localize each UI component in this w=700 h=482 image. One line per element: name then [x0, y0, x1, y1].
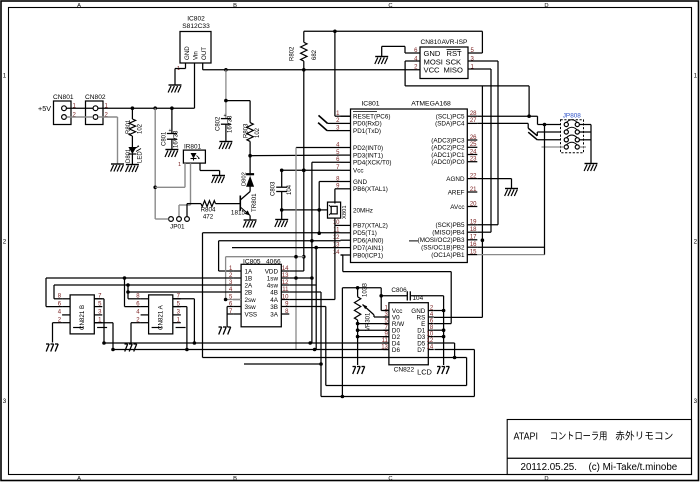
IC801 pin 9 PB6(XTAL1): [341, 188, 351, 190]
IC801 pin 17 (MOSI/OC2)PB3: [467, 239, 477, 241]
IC805 pin 1 1A: [233, 270, 241, 272]
connector CN822 LCD: [389, 303, 428, 365]
svg-text:CN821 B: CN821 B: [79, 305, 86, 330]
wire IR801 Vcc from +5V gray vertical: [154, 108, 156, 219]
svg-text:C: C: [388, 476, 392, 482]
ground for CN822 right: [437, 367, 449, 375]
overline dash before (MOSI text: [409, 240, 418, 242]
IC801 pin 16 (SS/OC1B)PB2: [467, 246, 477, 248]
CN821A pin 5: [173, 306, 181, 308]
svg-text:コントローラ用: コントローラ用: [550, 431, 608, 443]
svg-text:13: 13: [282, 273, 289, 279]
svg-text:4B: 4B: [270, 289, 278, 296]
IC801 pin 27 (SDA)PC4: [467, 122, 477, 124]
IC805 pin 6 3sw: [233, 306, 241, 308]
ground for AGND: [505, 189, 518, 197]
wire D7 from outer loop to CN822 pin14: [434, 349, 474, 351]
wire MOSI routing: [405, 85, 529, 87]
IC805 pin 2 1B: [233, 277, 241, 279]
svg-text:A: A: [77, 476, 81, 482]
svg-text:24: 24: [470, 149, 477, 155]
IC805 pin 7 VSS: [233, 313, 241, 315]
wire rail2 corner to CN821B pin8: [53, 285, 55, 299]
svg-text:10: 10: [282, 294, 289, 300]
svg-text:4sw: 4sw: [267, 282, 279, 289]
wire R/W D0 D2 grounding rows: [358, 323, 389, 325]
wire IC802 GND to ground: [185, 63, 187, 69]
CN822 pin 13 D6: [383, 349, 389, 351]
IC801 pin 18 (MISO)PB4: [467, 231, 477, 233]
wire PB2 pin16 right: [477, 246, 544, 248]
CN821B pin 6: [62, 306, 70, 308]
svg-text:PD1(TxD): PD1(TxD): [353, 128, 381, 135]
svg-text:(ADC2)PC2: (ADC2)PC2: [431, 145, 465, 152]
svg-text:IC802: IC802: [187, 16, 205, 23]
wire C803 bottom to GND net: [282, 209, 320, 211]
svg-text:12: 12: [427, 338, 434, 344]
wire RS line from MOSI vertical to CN822 pin4: [434, 316, 482, 318]
wire IC805 pin12 drop to D6: [289, 284, 316, 286]
svg-text:VR301: VR301: [366, 312, 372, 331]
CN822 pin 6 E: [428, 323, 434, 325]
svg-text:(OC1A)PB1: (OC1A)PB1: [431, 252, 465, 259]
IC805 pin 9 3B: [281, 306, 289, 308]
wire D5 pin12 to inner loop: [434, 342, 455, 344]
IC801 pin 7 Vcc: [341, 169, 351, 171]
svg-text:PD6(AIN0): PD6(AIN0): [353, 238, 383, 245]
wire CN822 GND column: [443, 311, 445, 366]
wire IC805 pin1 loop to AIN0 net: [219, 270, 234, 272]
capacitor C803 104: [276, 186, 287, 188]
IC801 pin 13 PD7(AIN1): [341, 247, 351, 249]
svg-text:B: B: [233, 3, 237, 9]
LED D801: [131, 136, 133, 147]
svg-text:3: 3: [694, 398, 698, 405]
capacitor C802 16V33: [221, 118, 231, 120]
svg-text:C801: C801: [162, 131, 168, 146]
CN822 pin 10 D3: [428, 336, 434, 338]
svg-text:RESET(PC6): RESET(PC6): [353, 114, 390, 121]
wire IC805 pin13 to PD4 channel: [289, 277, 312, 279]
wire TR801 emitter to ground: [249, 216, 251, 221]
svg-text:12: 12: [333, 235, 340, 241]
wire CN810 GND pin6 to ground: [405, 52, 420, 54]
svg-text:Vin: Vin: [193, 51, 200, 60]
svg-text:20MHz: 20MHz: [353, 208, 373, 215]
CN821A pin 2: [141, 322, 149, 324]
svg-text:22: 22: [470, 173, 477, 179]
svg-text:OUT: OUT: [201, 47, 208, 60]
svg-text:C806: C806: [391, 287, 407, 294]
wire inner loop right/bottom: [466, 358, 468, 386]
connector CN821 A: [149, 295, 173, 334]
svg-text:C802: C802: [216, 116, 222, 131]
svg-text:20: 20: [470, 201, 477, 207]
svg-text:2: 2: [3, 239, 7, 246]
svg-text:10: 10: [427, 331, 434, 337]
IC801 pin 6 PD4(XCK/T0): [341, 161, 351, 163]
wire PD2 INT0 to channel: [296, 147, 341, 149]
IC805 pin 3 2A: [233, 284, 241, 286]
wire JP01 left pin to +5V: [155, 218, 168, 220]
wire CN810 MISO pin1 down to PB4: [468, 68, 491, 70]
svg-text:15: 15: [470, 249, 477, 255]
svg-text:27: 27: [470, 118, 477, 124]
svg-text:D: D: [544, 476, 548, 482]
svg-text:(ADC1)PC1: (ADC1)PC1: [431, 152, 465, 159]
wire PD5 T1 left: [203, 232, 341, 234]
svg-text:C803: C803: [271, 181, 277, 196]
wire D6 line to CN822 pin13: [113, 349, 389, 351]
wire Vcc riser to CN822 pin1: [380, 288, 382, 311]
svg-text:3B: 3B: [270, 304, 278, 311]
svg-text:AREF: AREF: [448, 189, 465, 196]
CN821B pin 7: [94, 298, 102, 300]
svg-text:+5V: +5V: [38, 104, 51, 113]
CN821A pin 1: [173, 322, 181, 324]
wire IR801 OUT down to JP01: [190, 163, 192, 205]
wire R804 to TR801 base: [216, 203, 241, 205]
IC801 pin 26 (ADC3)PC3: [467, 139, 477, 141]
wire vertical from JP808 row1 down to PB1/PB2: [544, 125, 546, 255]
IC801 pin 25 (ADC2)PC2: [467, 146, 477, 148]
JP808 jumper row 3: [564, 138, 568, 142]
svg-text:3: 3: [3, 398, 7, 405]
wire y364 link: [244, 363, 321, 365]
wire E line down to CN822 pin6: [434, 323, 451, 325]
svg-text:PD5(T1): PD5(T1): [353, 230, 377, 237]
wire CN821B pin7 to D4 line: [94, 298, 104, 300]
svg-text:D801: D801: [126, 148, 132, 163]
IC801 pin 10 PB7(XTAL2): [341, 224, 351, 226]
IC801 pin 8 GND: [341, 181, 351, 183]
IC805 pin 11 4B: [281, 291, 289, 293]
IC801 pin 12 PD6(AIN0): [341, 239, 351, 241]
IC805 pin 4 2B: [233, 291, 241, 293]
wire IC805 pin6 3sw: [227, 306, 233, 308]
svg-text:1: 1: [694, 73, 698, 80]
IC801 pin 3 PD1(TxD): [341, 130, 351, 132]
wire 3.3V branch down to C802: [225, 70, 227, 119]
svg-text:104: 104: [287, 184, 293, 195]
CN821B pin 5: [94, 306, 102, 308]
svg-text:1A: 1A: [245, 268, 254, 275]
svg-text:TR801: TR801: [251, 193, 258, 212]
svg-text:X801: X801: [342, 205, 348, 219]
IC801 pin 15 (OC1A)PB1: [467, 254, 477, 256]
svg-text:CN821 A: CN821 A: [158, 304, 165, 330]
svg-text:PD4(XCK/T0): PD4(XCK/T0): [353, 160, 392, 167]
wire CN821A pin2 to ground: [131, 322, 141, 324]
CN821A pin 4: [141, 314, 149, 316]
svg-text:(SCL)PC5: (SCL)PC5: [436, 114, 465, 121]
svg-text:B: B: [233, 476, 237, 482]
wire PD0 pigtail: [328, 122, 341, 124]
wire Vcc rail drop left: [341, 288, 343, 397]
ground for C801: [165, 150, 178, 158]
svg-text:1815: 1815: [231, 210, 246, 217]
svg-text:3sw: 3sw: [245, 304, 257, 311]
capacitor C801 16V33: [167, 133, 177, 135]
wire IC805 pin9 drop to inner loop: [289, 306, 326, 308]
svg-text:21: 21: [470, 187, 477, 193]
CN822 pin 11 D4: [383, 342, 389, 344]
svg-text:JP01: JP01: [170, 224, 185, 231]
svg-text:PD2(INT0): PD2(INT0): [353, 145, 383, 152]
svg-text:LCD: LCD: [417, 368, 432, 377]
svg-text:(c) Mi-Take/t.minobe: (c) Mi-Take/t.minobe: [589, 462, 678, 473]
svg-text:PD3(INT1): PD3(INT1): [353, 152, 383, 159]
svg-text:12: 12: [282, 280, 289, 286]
svg-text:20112.05.25.: 20112.05.25.: [521, 462, 577, 473]
IC805 pin 8 3A: [281, 313, 289, 315]
svg-text:LED: LED: [138, 151, 144, 163]
svg-text:CN802: CN802: [85, 94, 106, 101]
svg-text:1B: 1B: [245, 275, 253, 282]
wire outer loop bottom: [321, 396, 474, 398]
svg-text:19: 19: [470, 220, 477, 226]
wire VR301 bottom to ground chain: [357, 320, 359, 365]
svg-text:682: 682: [312, 49, 318, 60]
IC805 pin 13 1sw: [281, 277, 289, 279]
resistor R803 102: [247, 123, 253, 142]
CN821B pin1/2 NC bars: [73, 327, 83, 329]
svg-text:JP808: JP808: [563, 113, 582, 120]
wire IC805 pin10 to XTAL2 channel: [289, 299, 335, 301]
wire VDD feed from Vcc vertical: [303, 70, 305, 271]
svg-text:(SCK)PB5: (SCK)PB5: [435, 222, 465, 229]
CN821B pin 4: [62, 314, 70, 316]
svg-text:14: 14: [282, 266, 289, 272]
JP808 jumper row 1: [564, 122, 568, 126]
CN821A pin 6: [141, 306, 149, 308]
wire Vcc line to C803 top: [282, 169, 341, 171]
CN821B pin 2: [62, 322, 70, 324]
IC801 pin 5 PD3(INT1): [341, 154, 351, 156]
svg-text:102: 102: [138, 123, 144, 134]
CN821A pin 7: [173, 298, 181, 300]
wire IC802 Vin down to +5V rail: [194, 63, 196, 108]
svg-text:+: +: [169, 128, 172, 134]
CN821B pin 1: [94, 322, 102, 324]
svg-text:2A: 2A: [245, 282, 254, 289]
IC805 pin 10 4A: [281, 299, 289, 301]
wire branch to R803: [226, 100, 250, 102]
wire IC805 pin3 to rail2: [54, 284, 233, 286]
CN821B pin 8: [62, 298, 70, 300]
wire CN802 pin2 down to ground: [98, 116, 118, 118]
wire RST rail: [304, 30, 483, 32]
wire IC805 VSS to ground: [227, 313, 233, 315]
CN822 pin 5 R/W: [383, 323, 389, 325]
JP808 jumper row 4: [564, 145, 568, 149]
jumper JP01: [169, 217, 174, 222]
ground for CN821A: [125, 344, 137, 352]
resistor R802 682: [303, 31, 305, 42]
ground for CN821B: [46, 344, 58, 352]
VR301 wiper arrow: [363, 305, 375, 315]
svg-text:S812C33: S812C33: [182, 23, 210, 30]
IC801 pin 28 (SCL)PC5: [467, 115, 477, 117]
wire CN821A pin5 to D6 line: [173, 306, 187, 308]
ground for CN810: [375, 57, 388, 65]
svg-text:26: 26: [470, 135, 477, 141]
CN821A pin1/2 NC bars: [152, 327, 162, 329]
svg-text:472: 472: [203, 214, 214, 221]
svg-text:23: 23: [470, 157, 477, 163]
svg-text:AGND: AGND: [446, 176, 465, 183]
svg-text:16V33: 16V33: [228, 115, 234, 133]
svg-text:(MISO)PB4: (MISO)PB4: [432, 230, 465, 237]
svg-text:14: 14: [427, 344, 434, 350]
resonator X801 20MHz: [328, 202, 341, 218]
ground for VR301 chain: [353, 367, 365, 375]
svg-text:PD7(AIN1): PD7(AIN1): [353, 245, 383, 252]
svg-text:A: A: [77, 3, 81, 9]
wire XTAL1 pin9: [335, 188, 341, 190]
potentiometer VR301 103B: [357, 288, 359, 297]
title block: [507, 420, 691, 475]
wire JP808 rows right common: [579, 124, 591, 126]
svg-text:AVR-ISP: AVR-ISP: [442, 39, 468, 46]
svg-text:D802: D802: [242, 172, 248, 186]
resistor R804 472: [201, 201, 216, 207]
svg-text:VCC: VCC: [424, 66, 441, 75]
IC801 pin 2 PD0(RxD): [341, 122, 351, 124]
wire XTAL2 pin10: [335, 224, 341, 226]
svg-text:R803: R803: [244, 123, 250, 138]
svg-text:GND: GND: [184, 46, 191, 60]
ground for C802: [219, 142, 232, 150]
svg-text:2B: 2B: [245, 289, 253, 296]
wire T1 net drop and inner loop top: [202, 233, 204, 358]
wire CN822 pin2 to GND column: [434, 310, 444, 312]
wire 3.3V rail: [203, 69, 420, 71]
JP808 jumper row 2: [564, 130, 568, 134]
ground for C803: [275, 220, 288, 228]
svg-text:C: C: [388, 3, 392, 9]
CN821A pin 3: [173, 314, 181, 316]
svg-text:PB0(ICP1): PB0(ICP1): [353, 252, 383, 259]
wire RESET vertical to ATMEGA pin1: [334, 31, 336, 116]
svg-text:IC801: IC801: [361, 101, 379, 108]
CN822 pin 12 D5: [428, 342, 434, 344]
svg-text:AVcc: AVcc: [450, 204, 464, 211]
svg-text:赤外リモコン: 赤外リモコン: [615, 431, 673, 443]
wire LCD Vcc rail: [342, 287, 381, 289]
svg-text:GND: GND: [353, 179, 367, 186]
wire collector node to PD3(INT1): [250, 154, 340, 157]
svg-text:CN822: CN822: [394, 367, 415, 374]
svg-text:3A: 3A: [270, 311, 279, 318]
svg-text:PB7(XTAL2): PB7(XTAL2): [353, 223, 388, 230]
svg-text:ATMEGA168: ATMEGA168: [411, 101, 451, 108]
svg-text:28: 28: [470, 111, 477, 117]
wire CN821A pin7 to D4 line: [173, 298, 195, 300]
svg-text:+: +: [224, 113, 227, 119]
IC801 pin 14 PB0(ICP1): [341, 254, 351, 256]
wire IC805 pin11 drop to outer loop: [289, 291, 321, 293]
svg-text:1sw: 1sw: [267, 275, 279, 282]
svg-text:D7: D7: [417, 347, 426, 354]
svg-text:25: 25: [470, 142, 477, 148]
svg-text:1: 1: [3, 73, 7, 80]
svg-text:4A: 4A: [270, 297, 279, 304]
wire JP808 row3 diagonal stub: [528, 132, 537, 140]
wire PD1 pigtail: [327, 130, 340, 132]
CN822 pin 8 D1: [428, 329, 434, 331]
wire IR801 GND to ground: [199, 163, 201, 170]
wire AGND pin22 to ground: [477, 178, 511, 180]
svg-text:102: 102: [255, 127, 261, 138]
svg-text:R804: R804: [201, 207, 216, 214]
svg-text:13: 13: [381, 344, 388, 350]
ground for TR801: [243, 220, 256, 228]
svg-text:R801: R801: [126, 119, 132, 134]
wire JP808 row4 left gray stub: [542, 146, 565, 148]
IC801 pin 19 (SCK)PB5: [467, 224, 477, 226]
wire D4 line to CN822 pin11: [104, 342, 389, 344]
CN822 pin 3 V0: [383, 316, 389, 318]
resistor R801: [131, 108, 133, 119]
transistor TR801 2SC1815: [239, 196, 241, 211]
svg-text:14: 14: [333, 250, 340, 256]
svg-text:(ADC0)PC0: (ADC0)PC0: [431, 159, 465, 166]
wire SCL pin28 to JP808 row1: [477, 115, 537, 117]
svg-text:(ADC3)PC3: (ADC3)PC3: [431, 137, 465, 144]
wire IC805 pin4 to CN821A rail riser: [128, 291, 233, 293]
wire PD6 AIN0 left: [219, 240, 341, 242]
svg-text:2sw: 2sw: [245, 297, 257, 304]
ground for IR801: [212, 176, 225, 184]
svg-text:VSS: VSS: [245, 311, 258, 318]
svg-text:11: 11: [282, 287, 289, 293]
wire Vcc pin7: [302, 169, 306, 173]
svg-text:2: 2: [694, 239, 698, 246]
wire CN810 SCK pin3 down to PB5: [468, 60, 498, 62]
wire CN821B pin1 to D6 line: [94, 322, 113, 324]
svg-text:(MOSI/OC2)PB3: (MOSI/OC2)PB3: [418, 237, 465, 244]
wire rail taps to CN821A pins 8/6: [124, 278, 126, 307]
IC801 pin 20 AVcc: [467, 206, 477, 208]
wire PB1 pin15 right gray: [477, 254, 544, 256]
diode D802: [249, 187, 251, 192]
CN822 pin 4 RS: [428, 316, 434, 318]
svg-text:1: 1: [178, 162, 181, 168]
svg-text:(SS/OC1B)PB2: (SS/OC1B)PB2: [421, 245, 465, 252]
wire PB0 ICP1 to LCD E: [341, 254, 343, 256]
CN821B pin 3: [94, 314, 102, 316]
CN822 pin 1 Vcc: [383, 310, 389, 312]
ground for D801: [126, 165, 139, 173]
ground for IC802: [168, 85, 181, 93]
svg-text:CN801: CN801: [53, 94, 74, 101]
CN822 pin 9 D2: [383, 336, 389, 338]
connector CN821 B: [70, 295, 94, 334]
IC801 pin 22 AGND: [467, 178, 477, 180]
wire CN821B pin2 to ground: [53, 322, 63, 324]
svg-text:R802: R802: [290, 46, 296, 61]
wire +5V branch down to C801: [171, 108, 173, 133]
ground for CN802 pin2: [111, 164, 124, 172]
svg-text:PB6(XTAL1): PB6(XTAL1): [353, 186, 388, 193]
svg-text:D: D: [544, 3, 548, 9]
wire rail1 corner to CN821B pin6: [45, 278, 47, 307]
CN822 pin 2 GND: [428, 310, 434, 312]
svg-text:17: 17: [470, 235, 477, 241]
svg-text:PD0(RxD): PD0(RxD): [353, 121, 382, 128]
CN822 pin 14 D7: [428, 349, 434, 351]
